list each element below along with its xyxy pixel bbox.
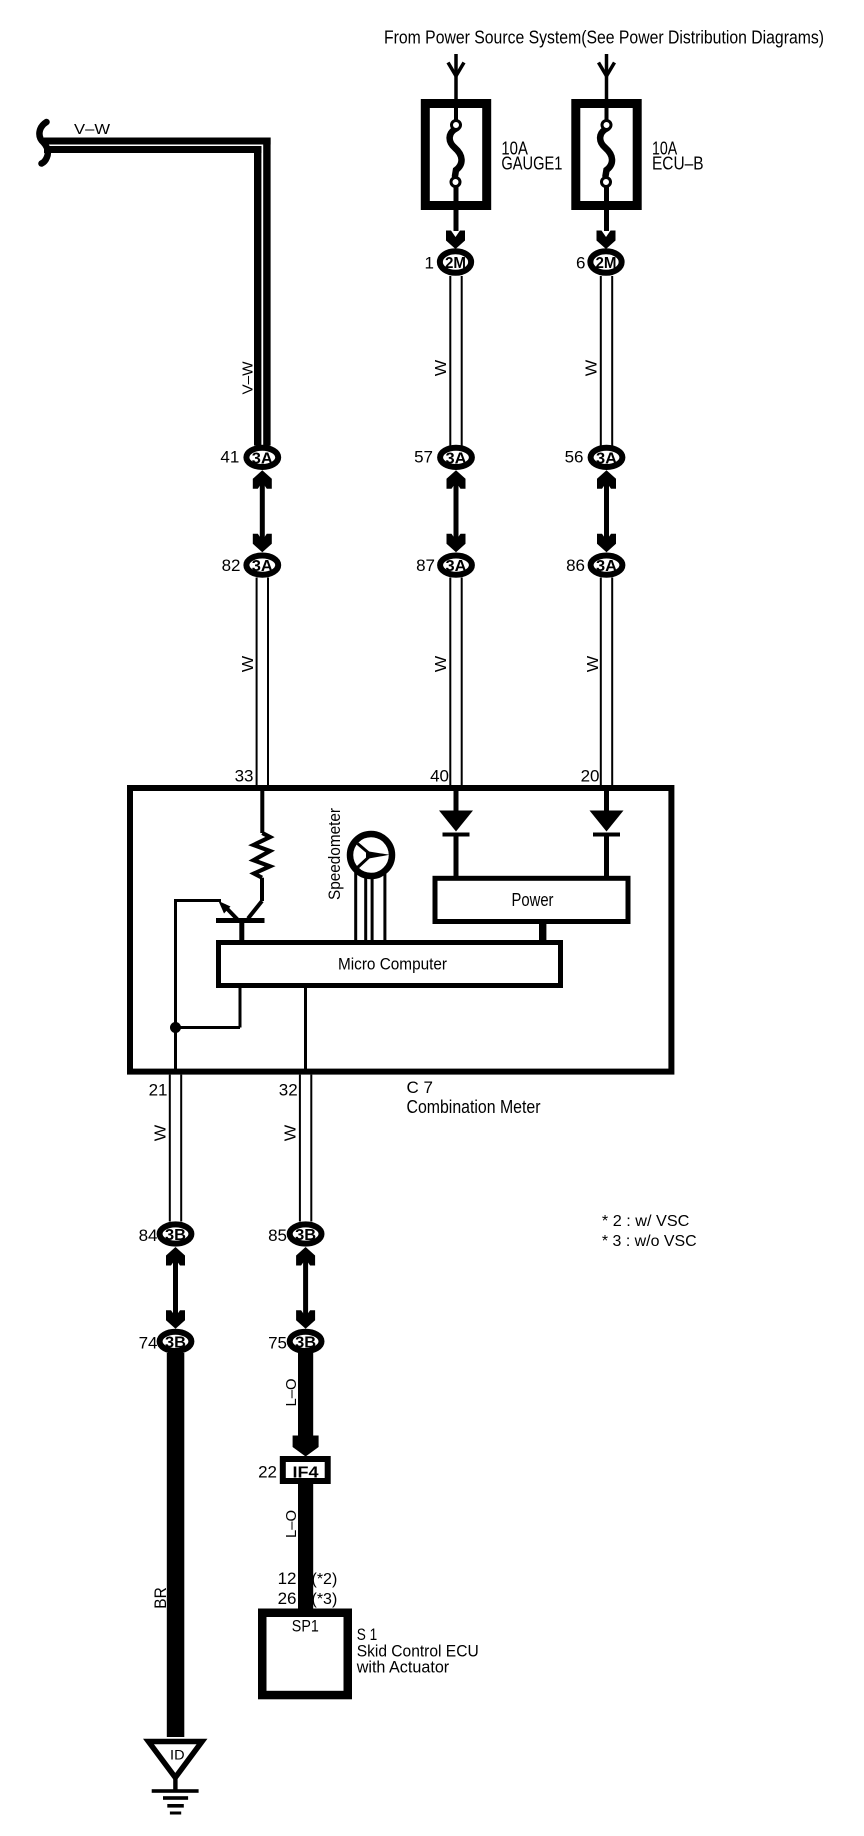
svg-text:V–W: V–W — [240, 361, 257, 395]
svg-text:3B: 3B — [165, 1334, 186, 1351]
svg-text:L–O: L–O — [283, 1510, 300, 1538]
svg-text:3A: 3A — [252, 450, 273, 467]
svg-text:3A: 3A — [446, 450, 467, 467]
svg-text:3B: 3B — [165, 1227, 186, 1244]
svg-text:2M: 2M — [445, 255, 466, 272]
svg-text:W: W — [153, 1124, 170, 1141]
svg-text:W: W — [240, 655, 257, 672]
svg-text:From Power Source System(See P: From Power Source System(See Power Distr… — [384, 28, 824, 48]
svg-text:GAUGE1: GAUGE1 — [501, 154, 562, 174]
svg-text:75: 75 — [268, 1333, 287, 1352]
svg-text:32: 32 — [279, 1081, 298, 1100]
svg-text:22: 22 — [258, 1462, 277, 1481]
svg-text:IF4: IF4 — [293, 1464, 319, 1481]
svg-text:84: 84 — [139, 1226, 158, 1245]
svg-text:* 2 : w/ VSC: * 2 : w/ VSC — [602, 1213, 690, 1230]
svg-text:W: W — [584, 359, 601, 376]
svg-text:20: 20 — [581, 767, 600, 786]
svg-text:86: 86 — [566, 556, 585, 575]
svg-text:3B: 3B — [295, 1334, 316, 1351]
svg-text:12: 12 — [278, 1569, 297, 1588]
svg-text:3B: 3B — [295, 1227, 316, 1244]
svg-text:3A: 3A — [252, 558, 273, 575]
svg-text:6: 6 — [576, 254, 585, 273]
svg-text:W: W — [433, 359, 450, 376]
svg-text:Power: Power — [512, 890, 554, 910]
svg-text:21: 21 — [149, 1081, 168, 1100]
svg-text:56: 56 — [565, 448, 584, 467]
svg-text:SP1: SP1 — [292, 1617, 319, 1636]
svg-text:W: W — [585, 655, 602, 672]
svg-text:1: 1 — [425, 254, 434, 273]
svg-text:W: W — [433, 655, 450, 672]
svg-text:Micro Computer: Micro Computer — [338, 955, 447, 974]
svg-text:87: 87 — [416, 556, 435, 575]
svg-text:40: 40 — [430, 767, 449, 786]
svg-text:26: 26 — [278, 1589, 297, 1608]
svg-text:3A: 3A — [446, 558, 467, 575]
svg-text:BR: BR — [151, 1587, 170, 1609]
svg-text:85: 85 — [268, 1226, 287, 1245]
svg-text:ECU–B: ECU–B — [652, 154, 704, 174]
svg-text:3A: 3A — [596, 558, 617, 575]
svg-text:V–W: V–W — [74, 121, 111, 138]
svg-text:82: 82 — [222, 556, 241, 575]
svg-text:Speedometer: Speedometer — [325, 808, 344, 900]
svg-text:41: 41 — [220, 448, 239, 467]
svg-text:with Actuator: with Actuator — [356, 1657, 450, 1676]
svg-text:* 3 : w/o VSC: * 3 : w/o VSC — [602, 1233, 697, 1250]
svg-text:ID: ID — [170, 1747, 185, 1763]
svg-text:W: W — [283, 1124, 300, 1141]
svg-text:3A: 3A — [596, 450, 617, 467]
svg-text:L–O: L–O — [283, 1379, 300, 1407]
svg-text:57: 57 — [414, 448, 433, 467]
svg-text:Combination Meter: Combination Meter — [407, 1097, 541, 1117]
svg-text:2M: 2M — [596, 255, 617, 272]
svg-text:C 7: C 7 — [407, 1078, 433, 1097]
svg-text:(*2): (*2) — [312, 1571, 338, 1588]
svg-text:33: 33 — [235, 767, 254, 786]
svg-text:74: 74 — [139, 1333, 158, 1352]
svg-text:(*3): (*3) — [312, 1591, 338, 1608]
